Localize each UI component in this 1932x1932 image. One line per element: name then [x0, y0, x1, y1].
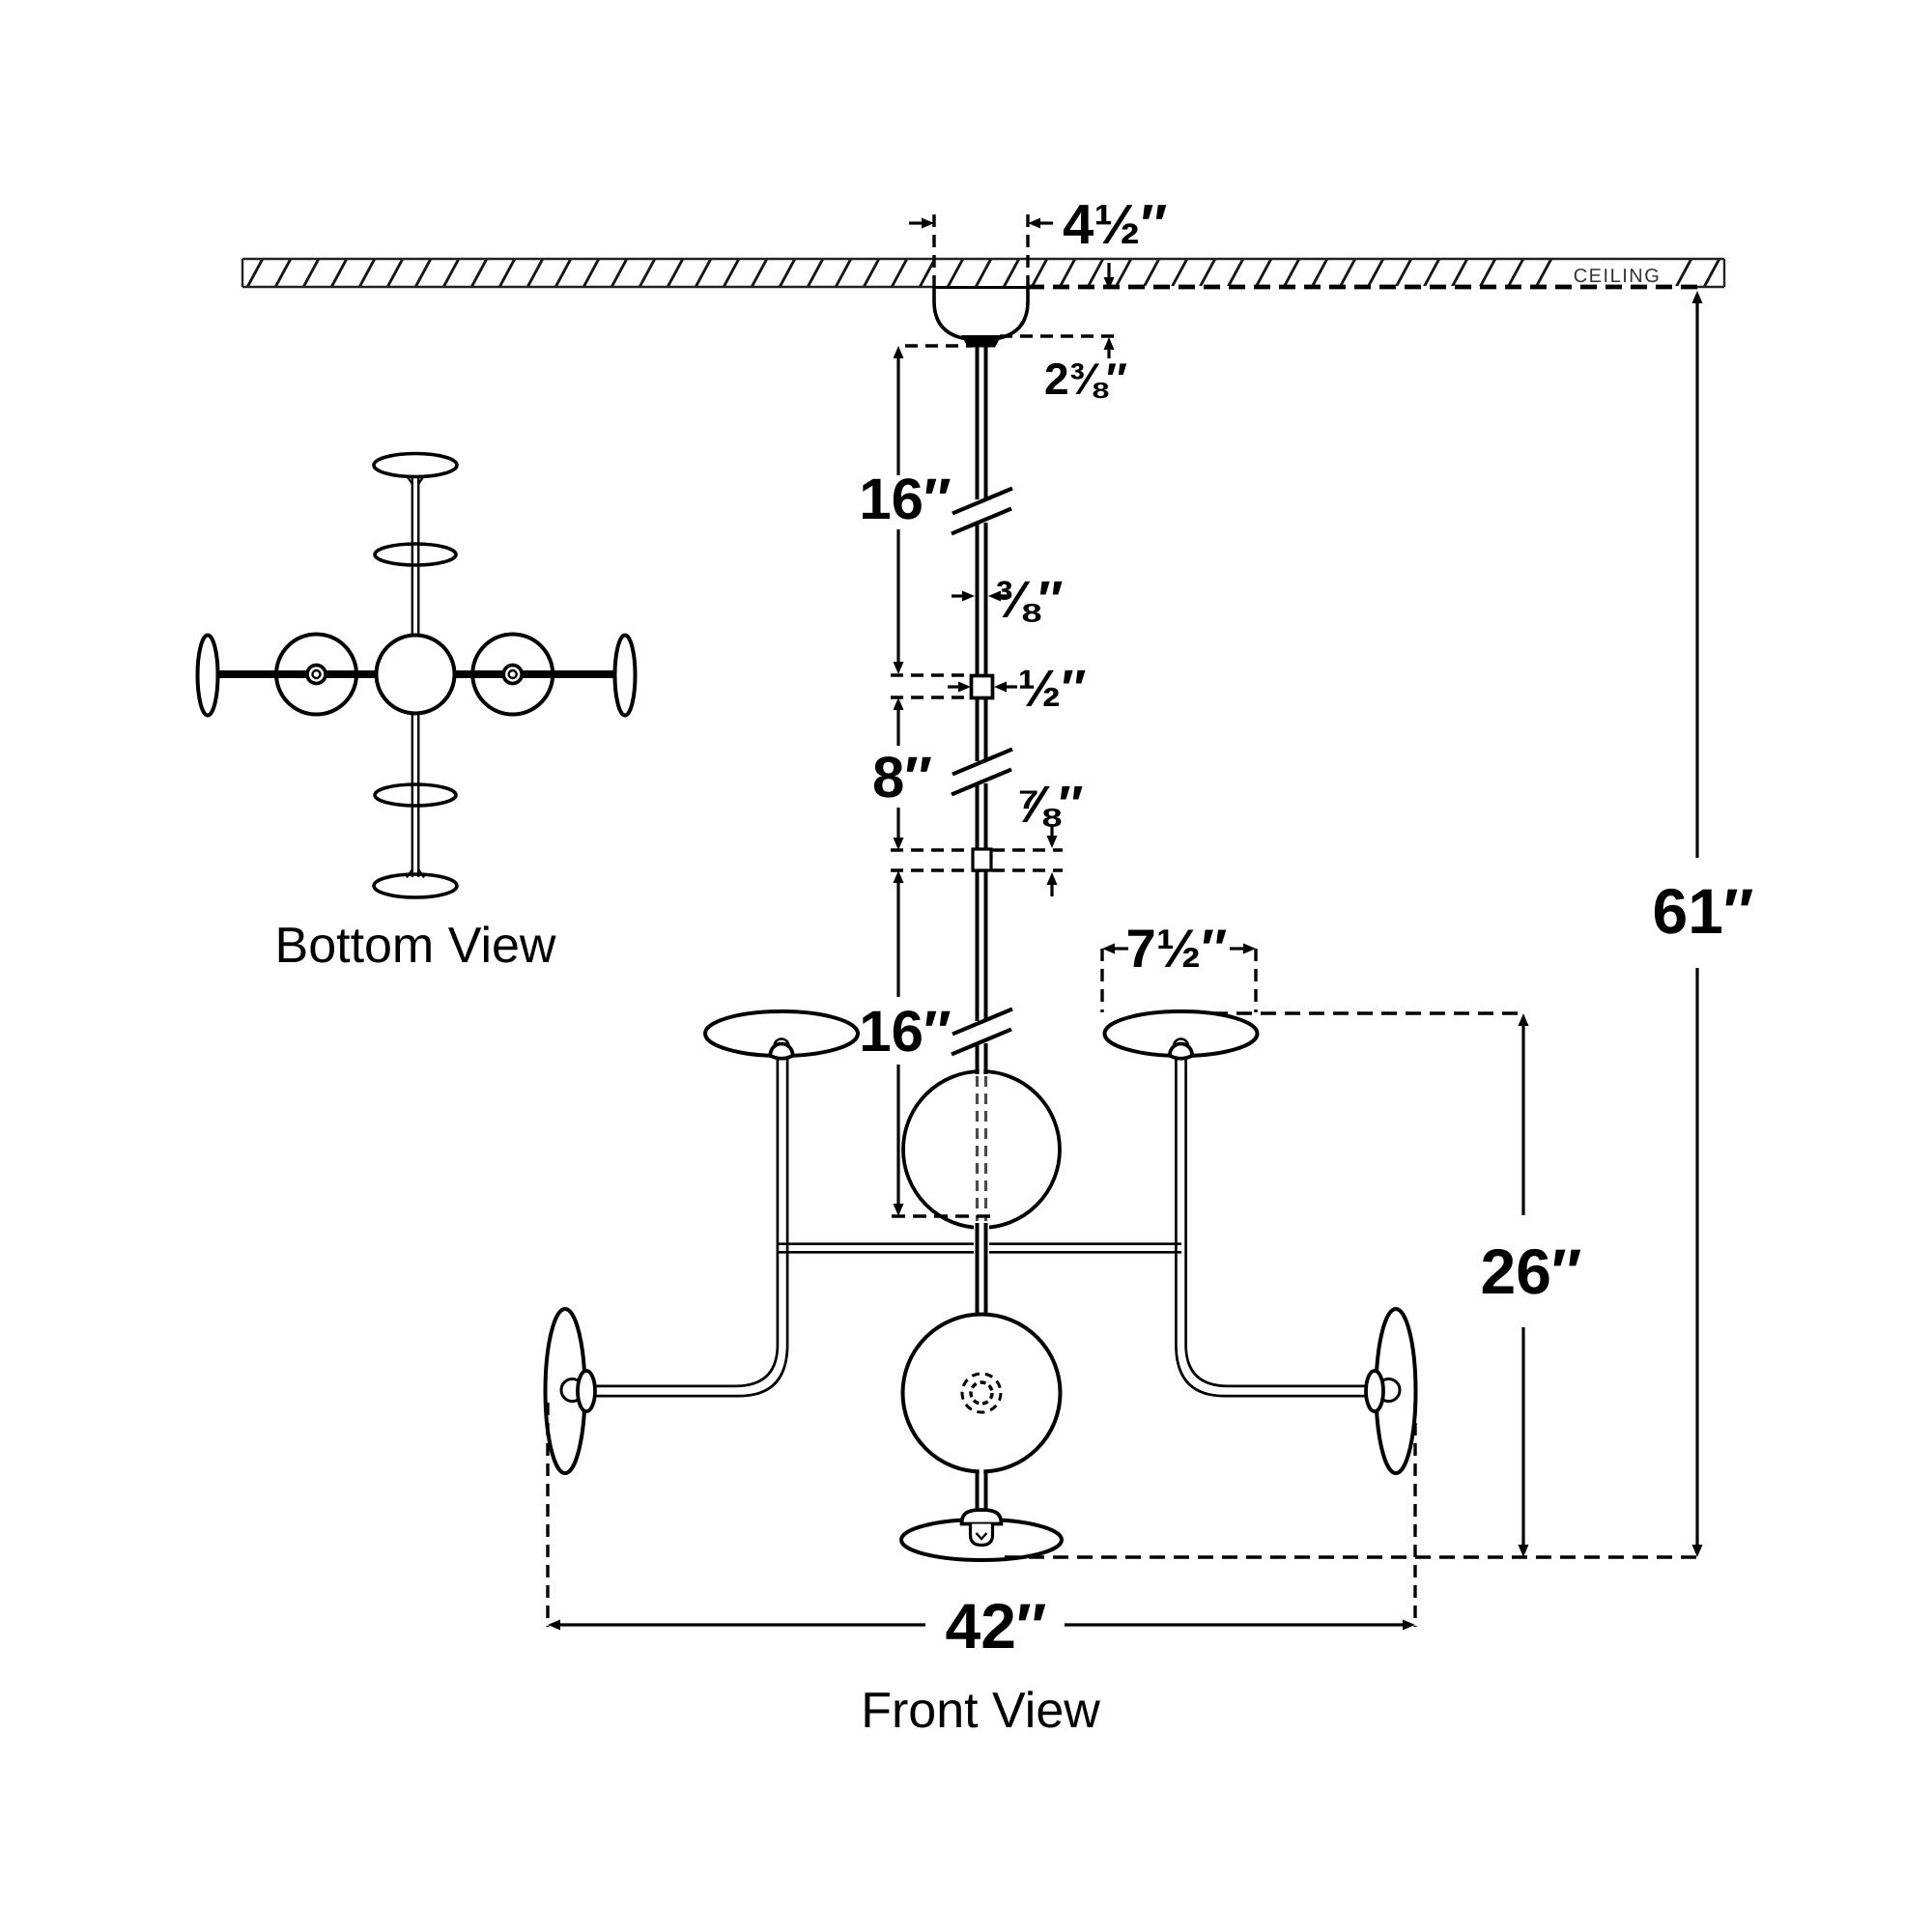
svg-text:⅞″: ⅞″ — [1015, 776, 1084, 834]
svg-text:8″: 8″ — [872, 745, 932, 810]
svg-text:26″: 26″ — [1480, 1236, 1581, 1307]
svg-text:61″: 61″ — [1652, 875, 1753, 947]
svg-text:16″: 16″ — [859, 999, 951, 1064]
svg-text:⅜″: ⅜″ — [995, 571, 1064, 629]
svg-text:16″: 16″ — [859, 467, 951, 531]
svg-text:½″: ½″ — [1018, 660, 1087, 718]
svg-text:2⅜″: 2⅜″ — [1044, 354, 1127, 404]
svg-text:Bottom View: Bottom View — [275, 918, 556, 974]
svg-text:7½″: 7½″ — [1126, 918, 1228, 979]
svg-text:Front View: Front View — [861, 1683, 1100, 1739]
svg-text:42″: 42″ — [945, 1590, 1046, 1662]
svg-text:4½″: 4½″ — [1063, 193, 1167, 256]
svg-text:CEILING: CEILING — [1574, 266, 1662, 287]
